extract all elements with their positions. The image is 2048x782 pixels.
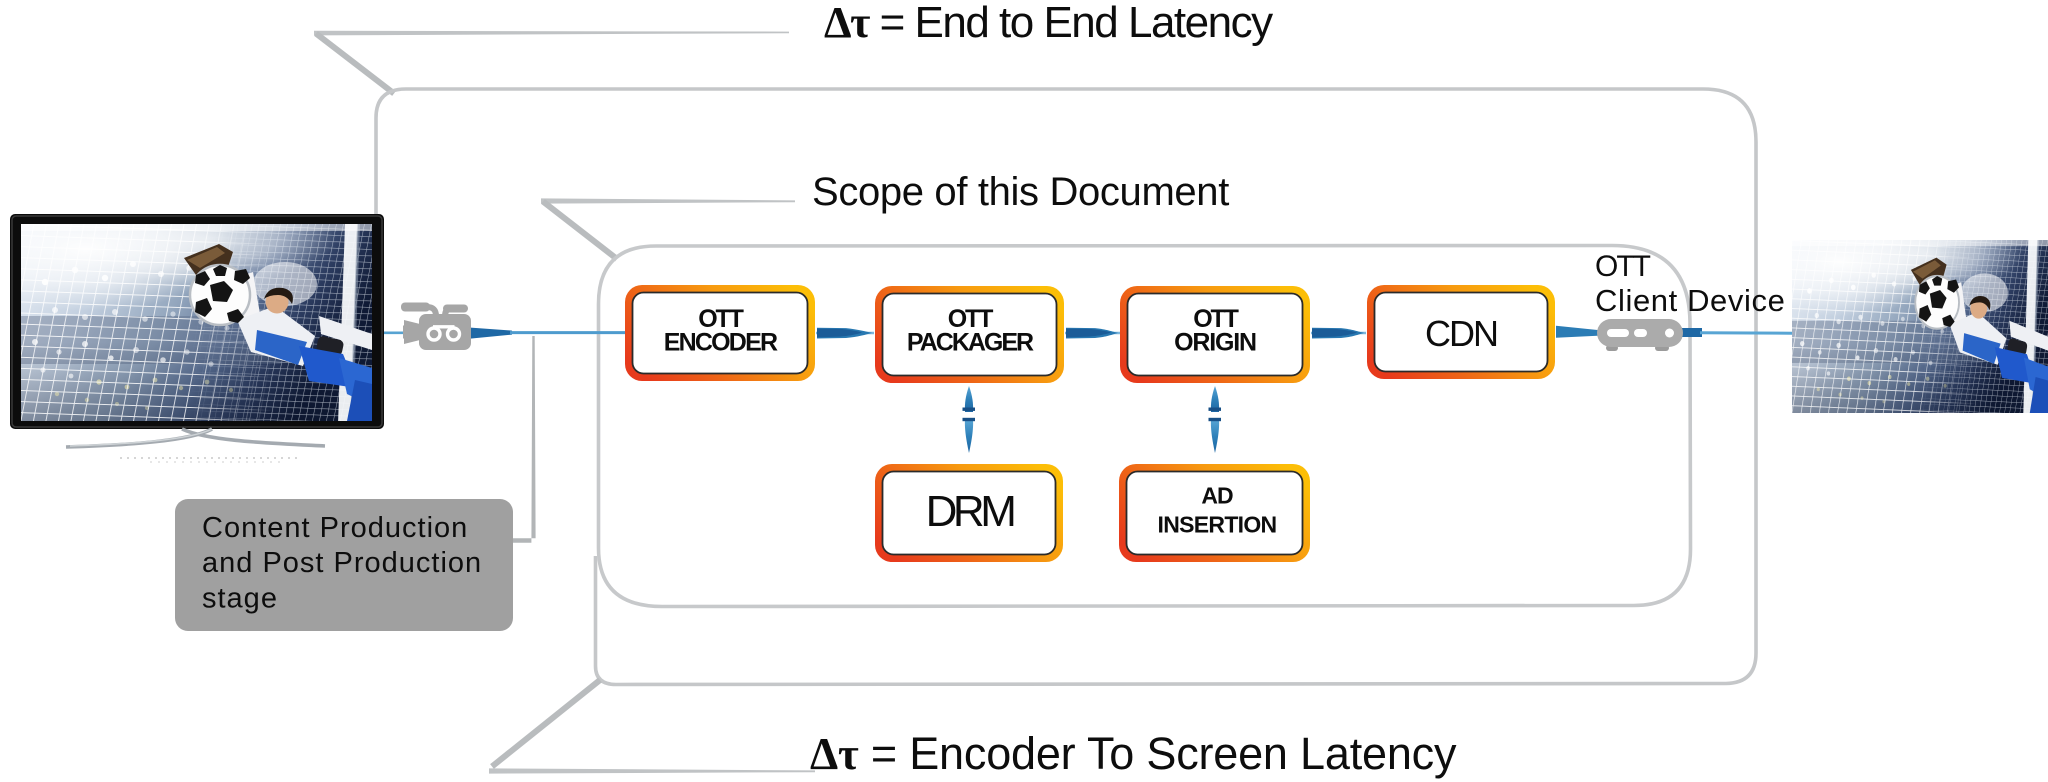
svg-text:OTT: OTT	[1595, 250, 1651, 283]
tv set	[0, 187, 384, 462]
arrow: encoder to packager	[816, 328, 874, 339]
svg-text:and Post Production: and Post Production	[202, 547, 482, 579]
svg-text:Scope of this Document: Scope of this Document	[812, 170, 1229, 214]
arrow: packager to drm (vertical double taper)	[963, 386, 976, 453]
svg-text:Content Production: Content Production	[202, 512, 468, 544]
svg-text:DRM: DRM	[926, 487, 1015, 536]
callout spike: encoder-to-screen (bottom)	[489, 680, 815, 774]
box AD INSERTION	[1119, 464, 1310, 562]
inner rounded rect: scope boundary	[599, 246, 1691, 607]
callout spike: scope of this document	[541, 198, 795, 259]
callout spike: end-to-end latency (horizontal pointer line)	[314, 31, 789, 94]
arrow: origin to cdn	[1311, 328, 1366, 339]
arrow: origin to ad-insertion (vertical double taper)	[1209, 386, 1222, 453]
svg-text:PACKAGER: PACKAGER	[907, 329, 1034, 357]
svg-text:CDN: CDN	[1425, 313, 1497, 354]
camera	[401, 303, 471, 351]
svg-text:Δτ = End to End Latency: Δτ = End to End Latency	[824, 0, 1273, 47]
box OTT ENCODER	[625, 285, 815, 381]
svg-text:ORIGIN: ORIGIN	[1174, 329, 1256, 357]
arrow: packager to origin	[1065, 328, 1120, 339]
box CDN	[1367, 285, 1555, 379]
box: content production and post production stage	[175, 499, 513, 631]
svg-text:AD: AD	[1201, 483, 1233, 509]
wire: tv to camera	[384, 331, 408, 334]
wire: client device to screen	[1682, 328, 1702, 337]
svg-text:INSERTION: INSERTION	[1158, 512, 1277, 538]
connector: content production box to main link	[513, 336, 536, 543]
box DRM	[875, 464, 1063, 562]
box OTT PACKAGER	[875, 286, 1064, 383]
wire: camera to encoder (thick taper)	[469, 328, 512, 339]
client screen image	[1730, 208, 2048, 413]
outer rounded rect: end-to-end boundary	[376, 89, 1756, 685]
callout spike: end-to-end diagonal	[316, 34, 394, 94]
svg-text:stage: stage	[202, 583, 278, 615]
svg-text:ENCODER: ENCODER	[664, 329, 778, 357]
box OTT ORIGIN	[1120, 286, 1310, 383]
svg-text:Client Device: Client Device	[1595, 283, 1785, 318]
wire: cdn to client device	[1556, 326, 1600, 338]
tv stand	[66, 429, 212, 447]
router	[1597, 319, 1683, 351]
svg-text:Δτ = Encoder To Screen Latency: Δτ = Encoder To Screen Latency	[810, 728, 1457, 779]
